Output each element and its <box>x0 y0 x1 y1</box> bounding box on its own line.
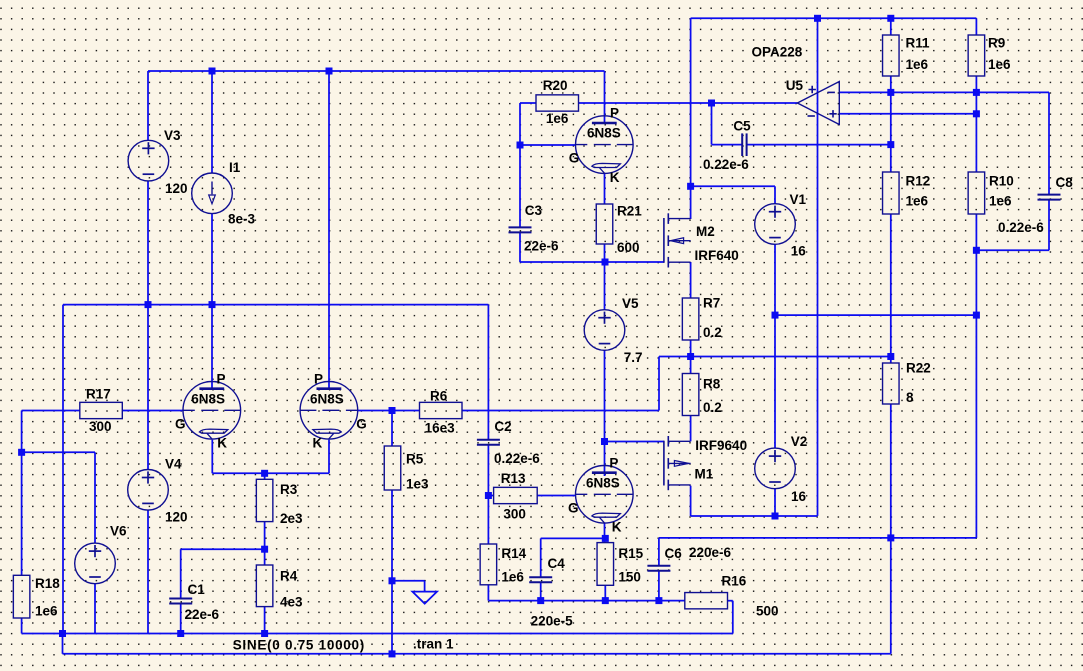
capacitor C5 <box>703 118 751 172</box>
svg-text:1e6: 1e6 <box>988 57 1011 72</box>
wire <box>391 411 393 447</box>
svg-text:M1: M1 <box>695 467 714 482</box>
wire <box>604 244 606 310</box>
capacitor C2 <box>477 419 540 466</box>
svg-text:R12: R12 <box>906 174 931 189</box>
resistor R17 <box>80 387 123 435</box>
wire <box>541 537 606 539</box>
wire <box>775 314 976 316</box>
wire <box>540 582 542 601</box>
wire <box>94 452 96 543</box>
node T <box>389 407 396 414</box>
wire <box>328 71 330 389</box>
svg-text:V1: V1 <box>790 192 807 207</box>
wire <box>148 70 605 72</box>
svg-text:1e6: 1e6 <box>906 57 929 72</box>
svg-text:8: 8 <box>906 390 914 405</box>
svg-text:K: K <box>610 170 620 185</box>
resistor R22 <box>883 361 931 406</box>
wire <box>487 444 489 544</box>
svg-text:600: 600 <box>617 240 640 255</box>
capacitor C8 <box>998 175 1073 235</box>
node G <box>814 15 821 22</box>
svg-text:6N8S: 6N8S <box>191 391 225 406</box>
wire <box>1048 200 1050 250</box>
node Z10 <box>601 438 608 445</box>
svg-text:R13: R13 <box>501 471 526 486</box>
wire <box>658 538 660 566</box>
wire <box>519 103 521 227</box>
wire <box>520 102 536 104</box>
svg-text:I1: I1 <box>229 160 241 175</box>
wire <box>579 102 798 104</box>
wire <box>691 185 775 187</box>
wire <box>520 261 664 263</box>
ground <box>412 592 437 604</box>
current source I1 <box>192 160 256 227</box>
svg-text:P: P <box>314 371 323 386</box>
svg-text:G: G <box>568 500 579 515</box>
svg-text:P: P <box>217 371 226 386</box>
node Z7 <box>537 597 544 604</box>
svg-text:150: 150 <box>618 570 641 585</box>
wire <box>537 495 576 497</box>
svg-text:C2: C2 <box>494 419 511 434</box>
wire <box>605 441 664 443</box>
node Z1 <box>261 546 268 553</box>
resistor R16 <box>685 574 779 619</box>
wire <box>604 523 606 542</box>
svg-text:R14: R14 <box>501 546 526 561</box>
wire <box>358 410 392 412</box>
wire <box>180 603 182 633</box>
resistor R11 <box>883 35 930 76</box>
svg-text:300: 300 <box>503 507 526 522</box>
wire <box>604 71 606 123</box>
svg-text:0.22e-6: 0.22e-6 <box>703 157 749 172</box>
wire <box>328 440 330 474</box>
wire <box>264 473 266 479</box>
wire <box>658 571 660 601</box>
resistor R21 <box>596 204 642 255</box>
svg-text:C6: C6 <box>665 546 683 561</box>
wire <box>690 416 692 442</box>
node V <box>602 535 609 542</box>
wire <box>22 633 733 635</box>
svg-text:K: K <box>217 436 227 451</box>
node X <box>887 534 894 541</box>
wire <box>890 18 892 35</box>
wire <box>690 262 692 298</box>
svg-text:R3: R3 <box>280 482 298 497</box>
node F <box>687 183 694 190</box>
wire <box>604 174 606 205</box>
wire <box>211 305 213 389</box>
svg-text:1e6: 1e6 <box>906 194 929 209</box>
svg-text:R11: R11 <box>906 36 931 51</box>
svg-text:R6: R6 <box>430 389 448 404</box>
wire <box>62 634 64 654</box>
wire <box>659 537 977 539</box>
svg-text:R7: R7 <box>703 295 720 310</box>
wire <box>147 181 149 305</box>
node R <box>973 312 980 319</box>
svg-text:220e-6: 220e-6 <box>689 545 732 560</box>
wire <box>487 305 489 440</box>
wire <box>659 356 891 358</box>
svg-text:0.2: 0.2 <box>703 325 722 340</box>
node Z5 <box>389 577 396 584</box>
capacitor C1 <box>169 582 219 622</box>
svg-text:R20: R20 <box>543 78 568 93</box>
node W <box>772 513 779 520</box>
node Z3 <box>177 630 184 637</box>
svg-text:6N8S: 6N8S <box>586 475 620 490</box>
svg-text:K: K <box>313 436 323 451</box>
svg-text:1e6: 1e6 <box>989 194 1012 209</box>
node Z4 <box>261 630 268 637</box>
wire <box>181 548 265 550</box>
node K <box>887 141 894 148</box>
node H <box>887 15 894 22</box>
svg-text:U5: U5 <box>786 78 804 93</box>
wire <box>976 249 1049 251</box>
node L <box>973 110 980 117</box>
svg-text:22e-6: 22e-6 <box>185 607 220 622</box>
wire <box>180 549 182 598</box>
svg-text:6N8S: 6N8S <box>587 126 621 141</box>
svg-text:6N8S: 6N8S <box>310 391 344 406</box>
resistor R5 <box>384 446 429 492</box>
svg-text:R4: R4 <box>280 568 298 583</box>
svg-text:K: K <box>612 520 622 535</box>
node P <box>887 353 894 360</box>
svg-text:G: G <box>175 416 186 431</box>
wire <box>211 440 213 474</box>
wire <box>711 103 713 145</box>
wire <box>487 585 489 601</box>
wire <box>604 585 606 600</box>
wire <box>691 515 775 517</box>
wire <box>890 92 892 172</box>
node Z6 <box>389 650 396 657</box>
wire <box>774 186 776 203</box>
wire <box>212 472 329 474</box>
svg-text:0.22e-6: 0.22e-6 <box>494 451 540 466</box>
node O <box>687 353 694 360</box>
svg-text:120: 120 <box>165 510 188 525</box>
wire <box>975 76 977 172</box>
transistor M2 IRF640 <box>664 213 739 267</box>
wire <box>22 451 95 453</box>
node M <box>145 301 152 308</box>
transistor M1 IRF9640 <box>664 436 747 490</box>
wire <box>21 618 23 634</box>
wire <box>774 244 776 315</box>
wire <box>747 144 891 146</box>
wire <box>775 515 818 517</box>
svg-text:R15: R15 <box>618 546 643 561</box>
wire <box>520 144 576 146</box>
capacitor C4 <box>529 556 565 582</box>
wire <box>658 357 660 411</box>
wire <box>264 522 266 550</box>
voltage source V2 <box>755 434 808 504</box>
voltage source V6 <box>75 523 127 583</box>
svg-text:R22: R22 <box>906 361 931 376</box>
svg-text:R21: R21 <box>617 204 642 219</box>
resistor R13 <box>494 471 538 521</box>
resistor R3 <box>256 479 303 526</box>
resistor R15 <box>597 543 644 586</box>
svg-text:1e3: 1e3 <box>406 477 429 492</box>
wire <box>690 486 692 516</box>
wire <box>488 495 493 497</box>
wire <box>122 410 182 412</box>
svg-text:M2: M2 <box>696 224 715 239</box>
wire <box>147 305 149 470</box>
svg-text:C1: C1 <box>188 582 206 597</box>
svg-text:V4: V4 <box>165 457 182 472</box>
node A <box>209 68 216 75</box>
wire <box>62 305 64 634</box>
resistor R8 <box>682 374 721 416</box>
wire <box>22 410 80 412</box>
node E <box>708 100 715 107</box>
svg-text:0.22e-6: 0.22e-6 <box>998 220 1044 235</box>
svg-text:R17: R17 <box>86 387 111 402</box>
wire <box>817 18 819 516</box>
wire <box>712 144 743 146</box>
wire <box>975 18 977 35</box>
wire <box>839 91 1049 93</box>
wire <box>690 18 692 219</box>
capacitor C6 <box>647 545 731 571</box>
svg-text:R18: R18 <box>35 576 60 591</box>
capacitor C3 <box>509 203 560 254</box>
wire <box>732 601 734 634</box>
svg-text:C8: C8 <box>1056 175 1074 190</box>
wire <box>1048 92 1050 194</box>
node U <box>485 492 492 499</box>
svg-text:C3: C3 <box>525 203 543 218</box>
node Z <box>261 470 268 477</box>
wire <box>774 489 776 517</box>
wire <box>462 410 659 412</box>
svg-text:R16: R16 <box>722 574 747 589</box>
node C <box>517 142 524 149</box>
svg-text:220e-5: 220e-5 <box>531 614 574 629</box>
svg-text:C5: C5 <box>733 118 751 133</box>
resistor R9 <box>968 35 1011 76</box>
svg-text:IRF640: IRF640 <box>695 248 739 263</box>
wire <box>488 600 684 602</box>
svg-text:V5: V5 <box>622 296 639 311</box>
svg-text:1e6: 1e6 <box>501 570 524 585</box>
resistor R18 <box>13 575 60 618</box>
wire <box>21 411 23 576</box>
wire <box>540 538 542 577</box>
wire <box>975 214 977 315</box>
wire <box>63 304 488 306</box>
svg-text:R8: R8 <box>703 377 721 392</box>
resistor R14 <box>480 544 527 585</box>
svg-text:300: 300 <box>89 419 112 434</box>
svg-text:8e-3: 8e-3 <box>228 212 256 227</box>
resistor R12 <box>883 172 931 214</box>
op-amp U5 OPA228 <box>752 45 840 125</box>
svg-text:G: G <box>356 416 367 431</box>
voltage source V5 <box>584 296 642 365</box>
vacuum tube T3 6N8S <box>569 106 633 185</box>
svg-text:R5: R5 <box>406 452 424 467</box>
wire <box>890 214 892 363</box>
wire <box>890 404 892 654</box>
node J <box>973 89 980 96</box>
wire <box>264 549 266 565</box>
svg-text:SINE(0 0.75 10000): SINE(0 0.75 10000) <box>233 638 365 653</box>
wire <box>519 233 521 262</box>
svg-text:P: P <box>609 455 618 470</box>
vacuum tube T2 6N8S <box>300 371 367 450</box>
svg-text:0.2: 0.2 <box>703 400 722 415</box>
node Y <box>18 449 25 456</box>
wire <box>424 581 426 592</box>
svg-text:R10: R10 <box>989 174 1014 189</box>
wire <box>147 510 149 633</box>
svg-text:16: 16 <box>791 489 807 504</box>
node S <box>973 247 980 254</box>
node I <box>887 89 894 96</box>
node D <box>602 259 609 266</box>
svg-text:120: 120 <box>165 181 188 196</box>
svg-text:V6: V6 <box>110 523 127 538</box>
wire <box>392 410 420 412</box>
voltage source V3 <box>128 128 187 196</box>
wire <box>890 76 892 92</box>
wire <box>391 490 393 654</box>
wire <box>94 584 96 634</box>
wire <box>264 607 266 634</box>
svg-text:V2: V2 <box>791 434 808 449</box>
svg-text:IRF9640: IRF9640 <box>695 438 747 453</box>
node B <box>326 68 333 75</box>
svg-text:V3: V3 <box>164 128 181 143</box>
resistor R10 <box>968 172 1014 214</box>
wire <box>839 113 976 115</box>
wire <box>63 653 891 655</box>
svg-text:R9: R9 <box>988 36 1005 51</box>
node Q <box>772 312 779 319</box>
svg-text:16: 16 <box>791 244 807 259</box>
svg-text:C4: C4 <box>548 556 566 571</box>
wire <box>774 315 776 448</box>
voltage source V1 <box>755 192 807 259</box>
svg-text:1e6: 1e6 <box>546 111 569 126</box>
svg-text:OPA228: OPA228 <box>752 45 803 60</box>
wire <box>211 71 213 174</box>
wire <box>728 600 733 602</box>
svg-text:7.7: 7.7 <box>624 350 643 365</box>
svg-text:22e-6: 22e-6 <box>524 239 559 254</box>
resistor R6 <box>420 389 463 436</box>
wire <box>975 315 977 538</box>
wire <box>691 17 977 19</box>
svg-text:4e3: 4e3 <box>280 595 303 610</box>
svg-text:G: G <box>569 151 580 166</box>
wire <box>604 350 606 476</box>
svg-text:1e6: 1e6 <box>35 603 58 618</box>
wire <box>690 340 692 374</box>
resistor R7 <box>682 295 721 340</box>
svg-text:P: P <box>610 106 619 121</box>
svg-text:.tran 1: .tran 1 <box>413 637 454 652</box>
node Z8 <box>602 597 609 604</box>
svg-text:2e3: 2e3 <box>280 511 303 526</box>
svg-text:500: 500 <box>756 603 779 618</box>
vacuum tube T4 6N8S <box>568 455 633 534</box>
node Z9 <box>655 597 662 604</box>
voltage source V4 <box>128 457 188 525</box>
svg-text:16e3: 16e3 <box>425 421 456 436</box>
resistor R20 <box>536 78 579 126</box>
resistor R4 <box>256 565 303 610</box>
wire <box>211 213 213 304</box>
wire <box>147 71 149 141</box>
node N <box>209 301 216 308</box>
node Z2 <box>59 630 66 637</box>
wire <box>392 580 425 582</box>
vacuum tube T1 6N8S <box>175 371 241 450</box>
